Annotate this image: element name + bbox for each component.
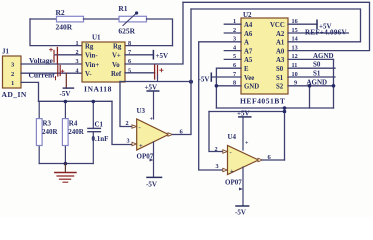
svg-text:R4: R4: [69, 119, 78, 127]
wire U2 pin10 S1: [288, 76, 335, 78]
svg-text:8: 8: [128, 40, 131, 47]
pin numbers U2 right: [292, 18, 298, 87]
wire U2 pin6 to pin8: [216, 68, 241, 108]
power +5V at U1 pin7: [125, 51, 168, 60]
svg-text:2: 2: [126, 120, 129, 127]
wire left vertical to U1 pin1: [30, 19, 82, 46]
svg-text:240R: 240R: [56, 23, 73, 32]
pin numbers U2 left: [233, 18, 236, 87]
svg-text:+: +: [150, 117, 154, 123]
wire AGND line to U4: [216, 107, 333, 109]
wire cap to feedback line: [157, 75, 159, 82]
capacitor on Voltage input: [50, 48, 58, 64]
svg-text:3: 3: [127, 137, 130, 144]
wire pin9 drop: [309, 86, 311, 108]
op-amp U3 OP07: [126, 107, 173, 161]
wire U4 output vertical: [284, 108, 286, 160]
svg-text:-5V: -5V: [146, 181, 157, 189]
wire divider bottom: [39, 163, 93, 165]
svg-text:A2: A2: [276, 31, 285, 38]
connector J1: [2, 48, 27, 100]
svg-text:R1: R1: [118, 4, 127, 13]
svg-text:240R: 240R: [68, 128, 85, 136]
svg-text:A5: A5: [244, 57, 253, 64]
power +5V above U3: [145, 84, 159, 120]
svg-text:+: +: [245, 141, 249, 147]
resistor R2: [56, 8, 84, 32]
svg-text:A3: A3: [276, 57, 285, 64]
node junction dot feedback/output: [189, 80, 193, 84]
svg-text:Rg: Rg: [113, 43, 122, 50]
svg-text:Rg: Rg: [85, 43, 94, 50]
wire U2 pin8: [216, 85, 241, 87]
wire between R2 and R1: [84, 18, 120, 20]
svg-text:Vin-: Vin-: [85, 53, 98, 60]
svg-text:-: -: [139, 124, 141, 131]
svg-text:3: 3: [216, 163, 219, 170]
svg-text:AD_IN: AD_IN: [2, 90, 27, 99]
svg-text:GND: GND: [244, 84, 259, 91]
wire U1 pin6 Vo up-loop: [125, 2, 183, 64]
svg-text:S0: S0: [276, 66, 284, 73]
wire U2 pin9 AGND: [288, 85, 334, 87]
resistor R1 (potentiometer): [118, 4, 146, 36]
svg-text:U4: U4: [228, 133, 237, 141]
multiplexer U2 HEF4051BT: [240, 11, 288, 106]
svg-text:E: E: [244, 66, 249, 73]
wire U2 pin3 to U4 pin3: [199, 42, 241, 170]
wire U2 pin14 loop from U3 output: [191, 9, 361, 42]
svg-text:-: -: [230, 149, 232, 156]
svg-text:+: +: [230, 168, 234, 175]
svg-text:U1: U1: [92, 34, 101, 42]
wire U1 pin5 Ref: [125, 72, 155, 74]
svg-text:1: 1: [76, 40, 79, 47]
svg-text:R2: R2: [56, 8, 65, 17]
svg-text:OP07: OP07: [225, 179, 242, 187]
wire R1 right to pin8 drop: [147, 19, 173, 46]
op-amp U1 INA118 box: [76, 34, 132, 94]
svg-text:HEF4051BT: HEF4051BT: [240, 97, 285, 106]
svg-text:-5V: -5V: [60, 90, 71, 98]
svg-text:2: 2: [11, 71, 14, 78]
svg-text:S0: S0: [313, 61, 321, 69]
wire feedback down to U3 pin2: [120, 82, 134, 127]
power -5V below U1 pin4: [60, 73, 74, 98]
wire top rail left segment: [30, 18, 57, 20]
power +5V at U2 pin16: [288, 20, 332, 30]
wire U3 output: [173, 9, 192, 135]
svg-text:Ref: Ref: [111, 71, 122, 78]
node dots on rail: [64, 100, 68, 104]
wire feedback down to U4 pin2: [209, 112, 225, 152]
svg-text:+: +: [139, 143, 143, 150]
resistor R3: [36, 101, 58, 163]
wire J1 pin1 down to divider rail: [21, 82, 39, 101]
svg-text:3: 3: [76, 58, 79, 65]
svg-text:C1: C1: [95, 121, 104, 129]
wire U2 pin4 stub: [224, 50, 241, 52]
svg-text:Vin+: Vin+: [85, 62, 99, 69]
svg-text:VCC: VCC: [270, 22, 285, 29]
power -5V below U3: [146, 142, 162, 189]
svg-text:-5V: -5V: [199, 76, 210, 84]
svg-text:A0: A0: [276, 48, 285, 55]
svg-text:4: 4: [76, 67, 79, 74]
svg-text:V+: V+: [112, 53, 121, 60]
svg-text:U3: U3: [137, 107, 146, 115]
svg-text:+5V: +5V: [156, 52, 169, 60]
wire U2 pin12 AGND: [288, 58, 334, 60]
wire U1 pin2 stub: [55, 54, 82, 56]
svg-text:REF+4.096V: REF+4.096V: [305, 29, 347, 37]
power +5V above U4: [237, 110, 251, 151]
wire U2 pin15 REF: [288, 32, 348, 34]
svg-text:2: 2: [76, 49, 79, 56]
wire U2 pin5 stub: [224, 58, 241, 60]
wire Current net J1.2 to U1.4: [21, 72, 82, 74]
svg-text:A: A: [244, 40, 249, 47]
ground: [55, 164, 76, 183]
capacitor C1: [88, 101, 109, 163]
svg-text:A6: A6: [244, 31, 253, 38]
svg-text:-5V: -5V: [235, 209, 246, 217]
svg-text:240R: 240R: [42, 128, 59, 136]
wire Voltage net J1.3 to U1.3: [21, 63, 82, 65]
wire U2 pin2 stub: [224, 32, 241, 34]
svg-text:Vo: Vo: [112, 62, 120, 69]
wire U4 output: [263, 159, 285, 161]
wire U2 pin11 S0: [288, 67, 335, 69]
wire U4 output feedback line: [209, 111, 285, 113]
svg-text:A7: A7: [244, 48, 253, 55]
op-amp U4 OP07: [215, 133, 263, 187]
wire U2 pin1 stub: [224, 23, 241, 25]
svg-text:J1: J1: [2, 48, 10, 56]
svg-text:1: 1: [11, 80, 14, 87]
power -5V at U2 pin7: [199, 73, 242, 83]
wire U2 pin13 loop from U1 Vo: [183, 2, 370, 50]
svg-text:U2: U2: [243, 11, 252, 19]
svg-text:INA118: INA118: [84, 85, 112, 94]
svg-text:625R: 625R: [118, 27, 135, 36]
svg-text:AGND: AGND: [313, 52, 334, 60]
capacitor on Current input: [56, 65, 64, 80]
svg-text:S1: S1: [276, 75, 284, 82]
svg-text:S1: S1: [313, 69, 321, 77]
svg-text:Vee: Vee: [244, 75, 254, 82]
wire U3 feedback line: [120, 81, 191, 83]
wire rail down to U3 pin3: [112, 101, 134, 144]
svg-text:0.1nF: 0.1nF: [92, 135, 109, 143]
wire U1 pin8: [125, 45, 173, 47]
svg-text:S2: S2: [276, 84, 284, 91]
divider rail wire: [39, 100, 113, 102]
svg-text:2: 2: [215, 146, 218, 153]
resistor R4: [62, 101, 84, 163]
capacitor at Ref pin: [155, 65, 163, 79]
svg-text:Current: Current: [29, 70, 56, 79]
power -5V below U4: [235, 167, 249, 217]
svg-text:Voltage: Voltage: [29, 56, 54, 65]
svg-text:R3: R3: [43, 119, 52, 127]
wire AGND vertical pin12-pin9-line: [333, 59, 335, 108]
svg-text:A1: A1: [276, 40, 285, 47]
svg-text:V-: V-: [85, 71, 92, 78]
svg-text:A4: A4: [244, 22, 253, 29]
